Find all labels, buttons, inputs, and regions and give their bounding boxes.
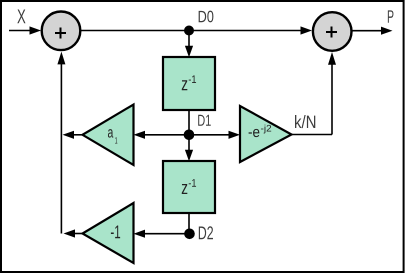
adder U1 (summing node, left) bbox=[42, 12, 81, 51]
wire gain A1 output to feedback net bbox=[63, 131, 83, 139]
wire delay Z1 to node D1 bbox=[188, 110, 190, 135]
gain A1 (triangle a1) bbox=[83, 105, 134, 166]
gain G2 (triangle -e^-j2) bbox=[240, 106, 292, 162]
wire feedback net up to adder U1 bbox=[57, 52, 65, 234]
delay block Z2 (z^-1, lower) bbox=[163, 161, 215, 213]
label D0 bbox=[199, 11, 214, 23]
wire delay Z2 to node D2 bbox=[188, 213, 190, 234]
gain G3 (triangle -1) bbox=[83, 203, 134, 263]
label X (input) bbox=[17, 10, 25, 24]
adder U2 (summing node, right) bbox=[313, 12, 352, 51]
wire X input to adder U1 bbox=[9, 26, 41, 34]
node D2 (junction dot) bbox=[184, 229, 195, 240]
label D2 bbox=[199, 226, 213, 239]
wire adder U1 to node D0 bbox=[81, 30, 190, 32]
label D1 bbox=[198, 115, 211, 126]
node D1 (junction dot) bbox=[184, 130, 195, 141]
wire node D1 to gain A1 bbox=[134, 131, 190, 139]
label k/N bbox=[295, 115, 315, 128]
wire node D0 down to delay Z1 bbox=[185, 31, 193, 58]
node D0 (junction dot) bbox=[184, 26, 194, 36]
delay block Z1 (z^-1, upper) bbox=[163, 57, 215, 110]
label P (output) bbox=[388, 10, 394, 22]
wire node D0 to adder U2 bbox=[189, 26, 312, 34]
wire gain G2 output to adder U2 bbox=[292, 52, 337, 135]
wire node D1 to gain G2 bbox=[189, 131, 240, 139]
wire gain G3 output to feedback net bbox=[64, 229, 83, 237]
wire node D2 to gain G3 bbox=[134, 230, 190, 238]
wire adder U2 to output P bbox=[352, 27, 393, 35]
wire node D1 down to delay Z2 bbox=[185, 135, 193, 162]
